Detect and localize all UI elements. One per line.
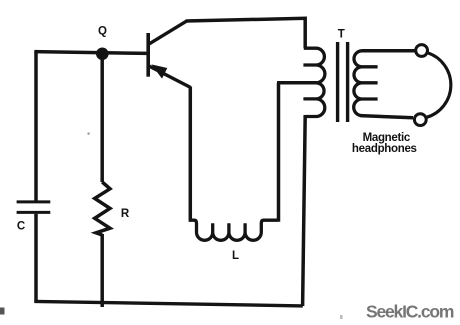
wire: secondary top to headphone top terminal	[362, 49, 415, 53]
svg-text:Q: Q	[98, 26, 107, 38]
wire: base wire from left rail to Q base	[34, 52, 147, 54]
transformer T core bars	[338, 42, 348, 122]
wire: left rail lower segment (capacitor C bottom to bottom rail)	[34, 214, 38, 303]
wire: left rail upper segment (node to capacitor C top)	[34, 51, 38, 201]
inductor L	[189, 220, 278, 240]
svg-text:headphones: headphones	[352, 143, 417, 155]
wire: secondary bottom to headphone bottom terminal	[361, 116, 414, 118]
wire: resistor R bottom to bottom rail	[100, 234, 104, 307]
wire: inductor L right side up to transformer tap	[277, 83, 316, 222]
wire: bottom rail	[34, 301, 302, 306]
wire: emitter down to inductor L	[189, 87, 193, 219]
transistor Q emitter lead	[149, 66, 191, 88]
wire: top rail from collector to transformer primary	[186, 18, 305, 48]
transistor Q base bar	[146, 33, 150, 77]
transformer T secondary winding	[354, 51, 378, 116]
resistor R	[95, 182, 110, 235]
svg-text:T: T	[338, 29, 345, 41]
wire: node to resistor R top	[100, 54, 104, 182]
scan artifact: faint mark below schematic	[340, 315, 343, 319]
svg-text:SeekIC.com: SeekIC.com	[366, 301, 454, 321]
wire: transformer primary bottom down to bottom rail	[303, 115, 306, 306]
svg-text:L: L	[232, 250, 239, 262]
scan artifact: left edge mark	[0, 308, 5, 315]
magnetic headphones top earpiece terminal	[416, 45, 428, 57]
svg-text:R: R	[121, 208, 130, 220]
svg-text:C: C	[17, 221, 25, 233]
magnetic headphones bottom earpiece terminal	[414, 114, 426, 126]
node Q-base junction dot	[96, 48, 109, 61]
transistor Q emitter arrow (PNP, points toward base)	[151, 64, 167, 78]
capacitor C	[17, 202, 51, 213]
transistor Q collector lead	[149, 21, 187, 44]
magnetic headphones band arc	[426, 53, 450, 118]
scan artifact: small speck near left rail	[88, 133, 90, 135]
transformer T primary winding	[303, 48, 325, 116]
